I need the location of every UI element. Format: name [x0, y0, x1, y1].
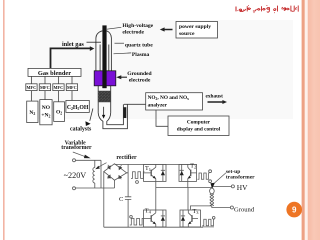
- psu arrow: [160, 27, 173, 31]
- svg-text:T4: T4: [145, 207, 152, 214]
- gas blender box: [28, 68, 81, 77]
- svg-text:MFC: MFC: [40, 85, 50, 90]
- mid rail: [156, 187, 212, 189]
- T1 transistor: [144, 164, 156, 181]
- svg-text:9: 9: [292, 206, 297, 215]
- analyzer-computer wire: [156, 110, 168, 126]
- svg-text:MFC: MFC: [27, 85, 37, 90]
- grounded electrode (purple): [94, 71, 116, 86]
- svg-text:C: C: [119, 196, 124, 203]
- T3 box: [180, 210, 201, 227]
- grounded electrode arrow: [116, 75, 127, 79]
- MFC boxes and connectors: [26, 76, 78, 101]
- svg-text:MFC: MFC: [54, 85, 64, 90]
- catalysts pointer: [85, 109, 93, 127]
- right pink sidebar thin line: [302, 0, 305, 240]
- T2 box: [179, 164, 197, 181]
- variable transformer label pointer: [73, 152, 85, 157]
- T2 stub down: [187, 181, 189, 187]
- HV terminal: [231, 185, 234, 188]
- wire bottom: [76, 187, 115, 189]
- T4 gate source symbol: [130, 216, 144, 226]
- svg-text:Plasma: Plasma: [132, 52, 150, 58]
- svg-text:inlet gas: inlet gas: [62, 41, 84, 48]
- catalyst bed (hatched): [98, 91, 111, 102]
- sample valve thick bar: [123, 107, 126, 118]
- svg-text:T2: T2: [190, 162, 196, 169]
- T2 gate source symbol: [198, 170, 212, 183]
- T1 stub down: [155, 181, 157, 210]
- capacitor plates: [125, 197, 131, 200]
- T1 gate source symbol: [131, 172, 144, 184]
- T3 diode: [181, 210, 185, 227]
- bridge diode marks: [107, 165, 122, 179]
- primary bottom wire: [191, 206, 212, 210]
- svg-text:NO: NO: [42, 105, 51, 111]
- svg-text:rectifier: rectifier: [116, 155, 137, 161]
- svg-text:electrode: electrode: [122, 30, 144, 36]
- wire top: [76, 159, 101, 161]
- variable transformer coil: [94, 160, 96, 188]
- NOx analyzer box: [146, 93, 203, 110]
- svg-text:source: source: [179, 31, 195, 37]
- terminal top: [73, 159, 76, 162]
- tube taper and outlet pipe: [98, 104, 127, 128]
- T4 box: [144, 210, 167, 227]
- rectifier bridge diamond: [104, 164, 127, 181]
- power supply box: [176, 22, 218, 39]
- svg-text:power supply: power supply: [179, 24, 211, 30]
- rod over purple: [102, 71, 106, 88]
- svg-text:electrode: electrode: [129, 77, 151, 83]
- computer box: [168, 116, 229, 136]
- faint scan background of top figure: [30, 20, 293, 119]
- svg-text:exhaust: exhaust: [206, 94, 224, 100]
- HV electrode rod: [102, 25, 106, 88]
- svg-text:Ground: Ground: [234, 206, 255, 213]
- T3 collector stub: [187, 188, 189, 211]
- set-up transformer pointer: [215, 173, 226, 183]
- Ground terminal: [230, 206, 233, 209]
- bottom rail: [104, 226, 203, 228]
- svg-text:Gas blender: Gas blender: [38, 70, 71, 77]
- inner tube walls: [100, 45, 109, 71]
- T3 transistor (mirrored): [188, 210, 198, 227]
- Ground wire: [212, 206, 231, 208]
- svg-text:transformer: transformer: [61, 145, 92, 151]
- T4 transistor: [144, 210, 156, 227]
- svg-text:~220V: ~220V: [64, 171, 87, 180]
- top rail: [115, 163, 197, 165]
- T2 diode: [180, 164, 184, 181]
- variable transformer secondary bar: [100, 160, 102, 188]
- svg-text:T1: T1: [145, 165, 151, 172]
- T3 gate source symbol: [202, 217, 215, 227]
- page number badge: [286, 202, 302, 218]
- HV wire: [212, 185, 232, 187]
- T2 transistor (mirrored): [188, 164, 197, 181]
- left drop from bridge left corner: [103, 172, 105, 228]
- circuit text labels: [61, 141, 255, 216]
- svg-text:display and control: display and control: [177, 126, 221, 132]
- label pointer lines: [107, 27, 131, 54]
- svg-text:analyzer: analyzer: [148, 102, 168, 108]
- T1 box: [144, 164, 167, 181]
- T1 diode: [161, 164, 165, 181]
- svg-text:catalysts: catalysts: [70, 126, 92, 132]
- svg-text:MFC: MFC: [67, 85, 77, 90]
- T4 diode: [161, 210, 165, 227]
- reactor labels: [122, 23, 153, 83]
- wiper arrow: [99, 163, 107, 167]
- gas cylinders: [27, 100, 90, 125]
- flow arrow inside tube: [103, 107, 105, 116]
- svg-text:T3: T3: [193, 208, 200, 215]
- terminal bottom: [73, 187, 76, 190]
- DC bus vertical with capacitor: [127, 165, 129, 228]
- svg-text:NO2, NO and NOx: NO2, NO and NOx: [148, 95, 189, 101]
- svg-text:Grounded: Grounded: [127, 71, 152, 77]
- quartz tube outer walls with dome: [96, 31, 112, 71]
- title (red Persian script, drawn): [236, 5, 298, 13]
- left pink edge line: [3, 0, 5, 240]
- step-up transformer coil: [210, 186, 215, 206]
- tube walls below electrode: [98, 86, 111, 113]
- bridge bottom stub: [114, 180, 116, 188]
- svg-text:transformer: transformer: [226, 174, 255, 180]
- exhaust arrow: [208, 100, 228, 104]
- wire to analyzer: [124, 103, 146, 105]
- right pink sidebar pale gap: [305, 0, 308, 240]
- svg-text:HV: HV: [237, 183, 248, 192]
- right pink sidebar band: [308, 0, 320, 240]
- svg-text:Computer: Computer: [187, 119, 211, 125]
- svg-text:quartz tube: quartz tube: [125, 42, 153, 48]
- inlet gas arrow: [51, 42, 102, 68]
- svg-text:High-voltage: High-voltage: [122, 23, 153, 29]
